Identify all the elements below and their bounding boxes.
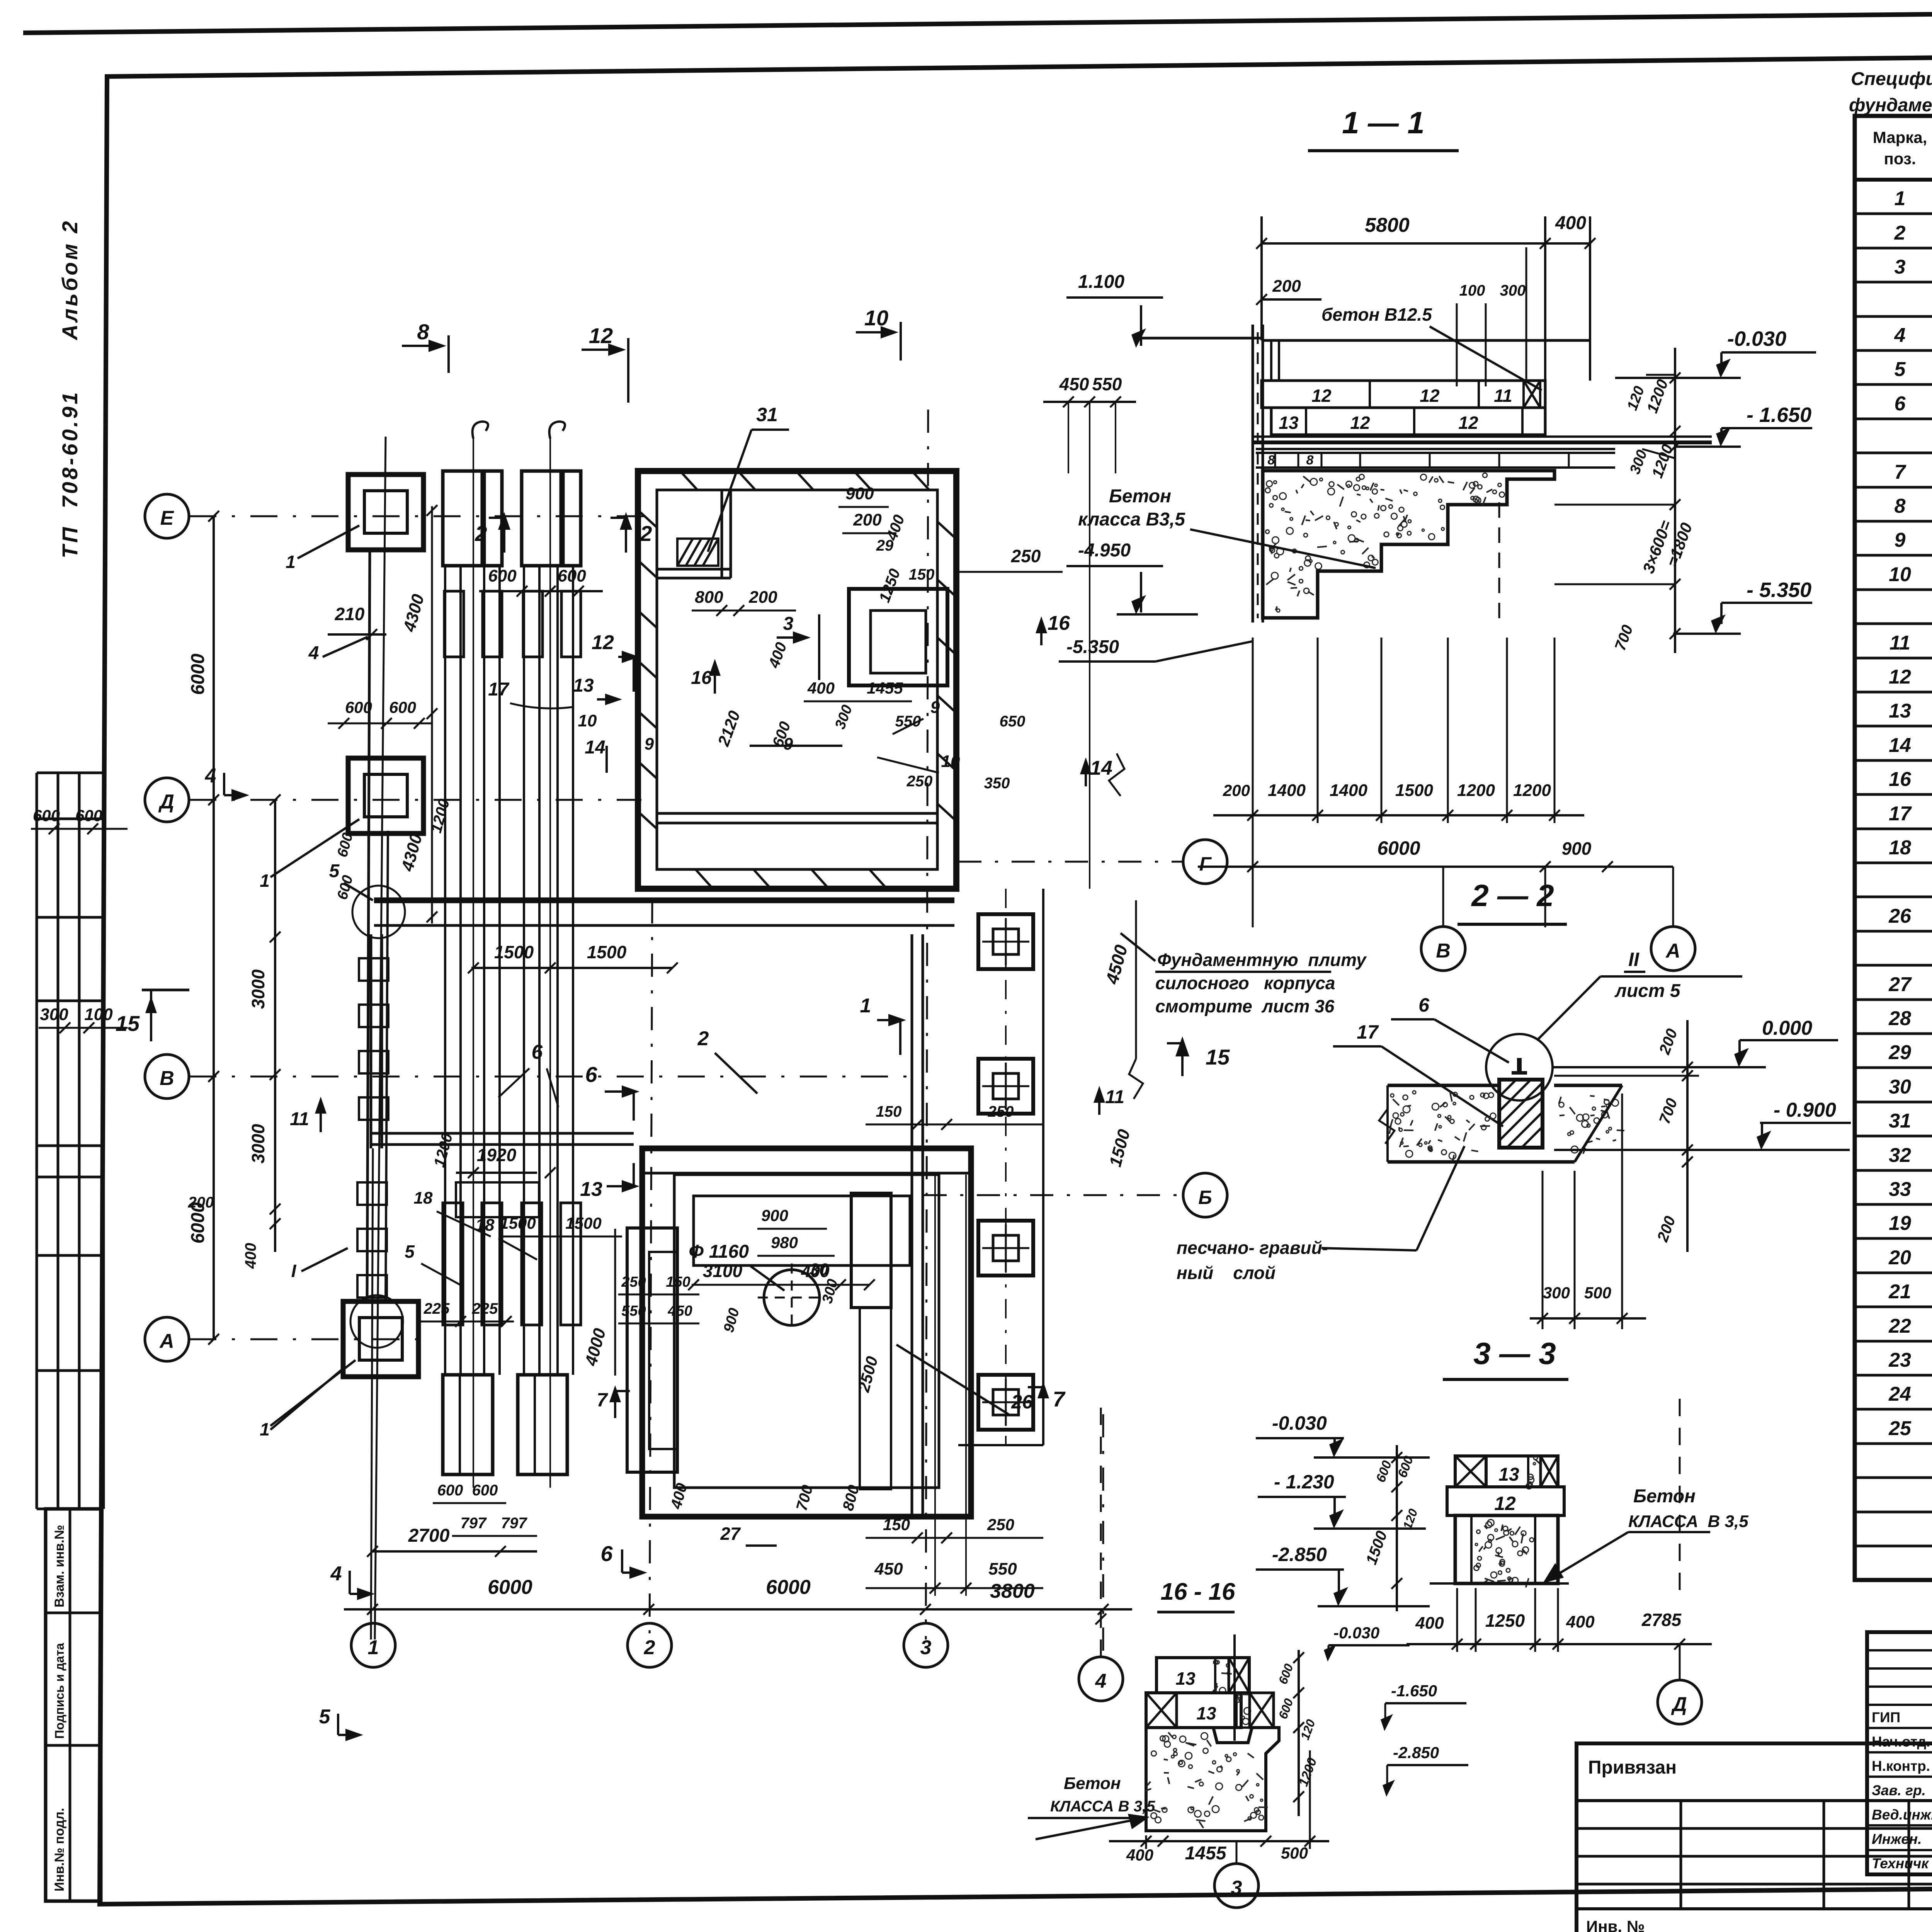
svg-text:13: 13 [580,1178,602,1201]
svg-text:Марка,: Марка, [1873,128,1927,146]
svg-text:250: 250 [906,773,933,790]
axis circle В (section 1-1) [1421,927,1465,971]
rail pier hatched [1499,1080,1543,1148]
svg-text:1: 1 [260,871,270,891]
svg-text:6: 6 [600,1541,613,1566]
svg-text:16: 16 [691,668,712,688]
svg-text:500: 500 [1584,1284,1611,1302]
svg-text:4: 4 [1095,1670,1107,1692]
column footing E/1 [348,474,423,550]
svg-text:3 — 3: 3 — 3 [1473,1336,1556,1371]
svg-text:2: 2 [639,521,652,546]
upper block right inner room [849,589,947,685]
svg-text:150: 150 [883,1515,910,1534]
svg-text:14: 14 [1090,757,1112,779]
svg-text:2785: 2785 [1641,1610,1682,1630]
svg-text:32: 32 [1889,1144,1911,1167]
axis grid horizontals Е Д В А [189,515,657,517]
svg-text:600: 600 [389,698,416,716]
foundation slab thin row [1256,448,1615,450]
svg-text:12: 12 [1494,1493,1516,1514]
svg-text:797: 797 [461,1515,487,1532]
section 2-2 slab [1388,1084,1499,1087]
svg-text:900: 900 [1562,838,1592,859]
floor line left of wall [1142,337,1262,340]
bottom dim line 6000 6000 3800 [344,1608,1132,1611]
svg-text:- 1.650: - 1.650 [1747,403,1811,427]
svg-text:1 — 1: 1 — 1 [1342,105,1424,140]
dim 600 600 (rails top) [479,590,603,592]
axis grid verticals 1..4 [375,437,386,1639]
svg-text:Фундаментную плиту: Фундаментную плиту [1157,950,1367,970]
dim 200 [1262,298,1321,301]
svg-text:225: 225 [472,1300,498,1317]
svg-text:900: 900 [761,1206,788,1225]
svg-text:6: 6 [1418,994,1430,1016]
svg-text:450: 450 [1059,374,1089,394]
svg-text:300: 300 [1500,282,1526,299]
svg-text:9: 9 [645,735,654,753]
svg-text:1400: 1400 [1268,781,1306,800]
diagonal cut line [1575,1085,1622,1162]
svg-text:Г: Г [1199,853,1212,875]
svg-text:1500: 1500 [587,942,627,962]
axis 3 circle (16-16) [1214,1864,1259,1908]
svg-text:3: 3 [1231,1877,1242,1899]
svg-text:100: 100 [84,1005,113,1024]
arrow 15 (left of 2-2) [1181,1043,1184,1076]
svg-text:6000: 6000 [1377,837,1420,859]
svg-text:24: 24 [1888,1383,1911,1405]
svg-text:21: 21 [1888,1281,1911,1303]
svg-text:31: 31 [756,404,778,425]
axis circle А (section 1-1) [1651,927,1695,971]
svg-text:7: 7 [1895,461,1906,483]
svg-text:350: 350 [984,775,1010,792]
masonry tick marks on upper block walls [680,471,697,490]
lower-right room [642,1148,971,1517]
svg-text:Вед.инж.: Вед.инж. [1872,1807,1932,1823]
upper block outer wall [638,471,956,889]
svg-text:1: 1 [368,1636,379,1659]
svg-text:2: 2 [474,521,487,546]
svg-text:16 - 16: 16 - 16 [1160,1578,1235,1605]
svg-text:12: 12 [1458,413,1478,433]
svg-text:17: 17 [488,679,510,700]
svg-text:1: 1 [286,552,296,572]
svg-text:-4.950: -4.950 [1078,540,1131,561]
svg-text:2: 2 [644,1636,655,1659]
left wall of section 1-1 [1252,325,1254,622]
circle 1160 [764,1270,820,1325]
zigzag break line right [1129,1059,1143,1099]
svg-text:класса В3,5: класса В3,5 [1078,509,1185,530]
svg-text:200: 200 [1272,277,1301,296]
svg-text:1455: 1455 [867,679,903,697]
svg-text:225: 225 [423,1300,450,1317]
svg-text:17: 17 [1357,1021,1379,1043]
spec table grid [1855,116,1932,1580]
svg-text:1455: 1455 [1185,1843,1227,1864]
svg-text:1: 1 [1895,187,1906,210]
svg-text:8: 8 [1306,453,1314,468]
svg-text:Φ 1160: Φ 1160 [689,1242,749,1262]
svg-text:500: 500 [1281,1844,1308,1862]
svg-text:400: 400 [1555,213,1586,233]
svg-text:10: 10 [578,711,597,730]
svg-text:1400: 1400 [1330,781,1367,800]
svg-text:30: 30 [810,1260,829,1279]
svg-text:20: 20 [1888,1247,1911,1269]
svg-text:2: 2 [1894,222,1906,244]
svg-text:12: 12 [1889,666,1911,688]
concrete mass stepped [1263,471,1554,618]
wall along axis 1 [367,550,370,1301]
svg-text:1500: 1500 [1395,781,1433,800]
svg-text:400: 400 [807,679,835,697]
3-3 bottom dims 400 1250 400 2785 [1406,1643,1712,1645]
right column footings x4 [978,914,1033,969]
svg-text:3: 3 [920,1636,932,1659]
svg-text:1500: 1500 [565,1214,601,1232]
pit left of room [627,1228,677,1472]
svg-text:9: 9 [784,735,793,753]
3-3 left vertical dims [1396,1445,1398,1611]
svg-text:11: 11 [1889,632,1910,654]
masonry course row 1 (blocks 12 12 11) [1262,381,1545,408]
svg-text:В: В [160,1067,174,1090]
svg-text:11: 11 [1494,386,1512,406]
svg-text:3000: 3000 [248,969,268,1009]
svg-text:Взам. инв.№: Взам. инв.№ [52,1525,67,1607]
svg-text:1200: 1200 [1513,781,1551,800]
upper block lower inner walls [657,812,937,815]
svg-text:200: 200 [1223,781,1250,799]
svg-text:27: 27 [1888,973,1912,996]
svg-text:550: 550 [621,1303,646,1319]
3-3 row 12 [1447,1487,1564,1515]
svg-text:ный слой: ный слой [1177,1263,1276,1283]
svg-text:10: 10 [941,752,960,771]
svg-text:18: 18 [1889,837,1911,859]
svg-text:25: 25 [1888,1417,1912,1440]
svg-text:450: 450 [874,1560,903,1578]
svg-text:300: 300 [1543,1284,1570,1302]
svg-text:10: 10 [864,306,888,330]
svg-text:поз.: поз. [1884,150,1916,168]
svg-text:29: 29 [1888,1041,1911,1064]
svg-text:Техничк: Техничк [1872,1855,1929,1871]
svg-text:Инв.№ подл.: Инв.№ подл. [52,1808,67,1891]
svg-text:1500: 1500 [500,1214,536,1232]
column footing A/1 [343,1301,418,1377]
lower-left hall [370,934,372,1148]
svg-text:4: 4 [308,643,319,663]
inner details lower room [694,1196,910,1265]
16-16 masonry row 2 [1146,1693,1241,1728]
svg-text:-0.030: -0.030 [1727,327,1786,350]
svg-text:КЛАССА В 3,5: КЛАССА В 3,5 [1628,1512,1748,1531]
svg-text:- 1.230: - 1.230 [1274,1471,1334,1493]
svg-text:Бетон: Бетон [1064,1774,1121,1793]
left dim chain inner 3000/3000/400 [274,800,276,1252]
svg-text:3100: 3100 [703,1261,743,1281]
svg-text:6: 6 [1895,393,1906,415]
dims 1500 1500 (hall top) [471,967,672,969]
svg-text:16: 16 [1889,768,1912,791]
svg-text:11: 11 [1105,1087,1124,1107]
svg-text:4: 4 [1894,324,1906,347]
svg-text:650: 650 [1000,713,1026,730]
section 1-1 axis dims 6000/900 [1198,866,1673,868]
svg-text:1250: 1250 [1485,1611,1525,1631]
svg-text:6: 6 [532,1041,543,1063]
axis Г circle [1183,840,1227,884]
svg-text:4: 4 [205,765,216,787]
3-3 concrete pier [1455,1515,1558,1583]
ground speckles 2-2 [1438,1114,1441,1117]
svg-text:300: 300 [40,1005,68,1024]
svg-text:550: 550 [988,1560,1017,1578]
svg-text:797: 797 [501,1515,527,1532]
svg-text:12: 12 [1350,413,1370,433]
svg-text:600: 600 [488,566,517,585]
svg-text:1920: 1920 [477,1145,517,1165]
leader 1 bottom footing [270,1368,344,1430]
svg-text:12: 12 [592,631,614,654]
svg-text:550: 550 [895,713,921,730]
svg-text:песчано- гравий-: песчано- гравий- [1177,1238,1328,1258]
svg-text:10: 10 [1889,563,1911,586]
svg-text:В: В [1436,940,1451,962]
svg-text:2: 2 [697,1027,709,1050]
svg-text:5: 5 [319,1706,331,1728]
svg-text:3: 3 [783,614,794,634]
left margin table lower (Взам.инв.№ / Подпись и дата / Инв.№ подл.) [46,1509,101,1901]
svg-text:- 5.350: - 5.350 [1747,578,1811,602]
svg-text:400: 400 [242,1243,259,1269]
svg-text:1: 1 [860,995,871,1017]
dashed axis inside concrete [1498,502,1500,618]
svg-text:100: 100 [1459,282,1485,299]
svg-text:2 — 2: 2 — 2 [1471,878,1554,913]
svg-text:3800: 3800 [990,1580,1035,1602]
svg-text:30: 30 [1889,1076,1911,1098]
column footing D/1 [348,758,423,833]
svg-text:980: 980 [771,1233,798,1252]
leader 1 to footing E/1 [298,526,359,558]
svg-text:15: 15 [116,1011,140,1036]
right side boundary of footings area [1042,889,1044,1445]
svg-text:550: 550 [1092,374,1122,394]
svg-text:5: 5 [1895,358,1906,381]
svg-text:2700: 2700 [408,1526,450,1546]
svg-text:200: 200 [748,588,777,607]
svg-text:8: 8 [1268,453,1275,468]
svg-text:ТП 708-60.91 Альбом 2: ТП 708-60.91 Альбом 2 [58,219,82,558]
svg-text:13: 13 [1196,1703,1216,1723]
axis Д circle (bottom right) [1658,1680,1702,1724]
svg-text:13: 13 [573,675,594,696]
svg-text:14: 14 [1889,734,1911,757]
foundation plates on axis-1 wall [359,958,388,981]
title block: signature table [1867,1632,1932,1874]
svg-text:11: 11 [290,1109,309,1129]
svg-text:450: 450 [667,1303,692,1319]
svg-text:200: 200 [853,510,882,529]
svg-text:Н.контр.: Н.контр. [1872,1758,1930,1774]
svg-text:6000: 6000 [188,653,208,695]
svg-text:8: 8 [417,320,429,344]
svg-text:Б: Б [1198,1187,1212,1208]
svg-text:250: 250 [1011,546,1041,566]
svg-text:-1.650: -1.650 [1391,1682,1437,1700]
svg-text:Инв. №: Инв. № [1586,1917,1645,1932]
svg-text:бетон В12.5: бетон В12.5 [1321,304,1432,325]
axis 4 circle (bottom) [1079,1657,1123,1701]
svg-text:-2.850: -2.850 [1393,1743,1439,1762]
break zigzag left [1379,1109,1395,1144]
svg-text:600: 600 [345,698,372,716]
svg-text:1500: 1500 [494,942,534,962]
svg-text:15: 15 [1206,1045,1230,1069]
svg-text:-2.850: -2.850 [1272,1544,1327,1565]
section 1-1 top dimension 5800/400 [1262,242,1590,245]
svg-text:9: 9 [1895,529,1906,551]
svg-text:Д: Д [1671,1693,1687,1716]
svg-text:-0.030: -0.030 [1333,1624,1379,1642]
svg-text:28: 28 [1888,1007,1911,1030]
svg-text:-0.030: -0.030 [1272,1412,1327,1434]
svg-text:7: 7 [597,1389,608,1411]
3-3 masonry row 13 [1455,1456,1558,1487]
svg-text:А: А [159,1330,174,1352]
svg-text:Инжен.: Инжен. [1872,1831,1922,1847]
masonry course row 2 (blocks 13 12 12) [1271,408,1545,435]
svg-text:Д: Д [158,791,174,813]
svg-text:Е: Е [160,507,174,529]
svg-text:600: 600 [558,566,586,585]
svg-text:31: 31 [1889,1110,1911,1132]
vertical duct 2500 [851,1193,891,1308]
section mark 2-2 arrows [503,518,505,553]
svg-text:13: 13 [1175,1668,1196,1689]
svg-text:250: 250 [621,1274,646,1290]
svg-text:26: 26 [1888,905,1912,927]
svg-text:33: 33 [1889,1178,1911,1201]
rail bundle group 1 [444,566,446,1375]
svg-text:150: 150 [876,1103,902,1120]
svg-text:1.100: 1.100 [1078,272,1124,292]
rail axes dashed + hooks [473,437,474,1488]
svg-text:- 0.900: - 0.900 [1774,1099,1836,1121]
svg-text:силосного корпуса: силосного корпуса [1155,973,1335,993]
right dim chain vertical [1674,348,1676,653]
svg-text:Зав. гр.: Зав. гр. [1872,1782,1926,1798]
svg-text:13: 13 [1279,413,1299,433]
svg-text:400: 400 [1566,1612,1595,1631]
room top band (slab 2) [642,1172,971,1175]
svg-text:400: 400 [1126,1846,1153,1864]
svg-text:6: 6 [585,1062,597,1087]
svg-text:150: 150 [909,566,935,583]
svg-text:600: 600 [75,806,102,825]
svg-text:9: 9 [930,698,940,717]
circles crossing axis1 wall [352,886,405,938]
svg-text:3000: 3000 [248,1124,268,1163]
svg-text:6000: 6000 [488,1576,532,1599]
left margin table upper [36,773,38,1509]
svg-text:27: 27 [720,1524,741,1544]
svg-text:29: 29 [876,537,894,554]
svg-text:5: 5 [329,861,340,881]
2-2 right dim chain 200/700/200 [1686,1020,1689,1252]
svg-text:12: 12 [1311,386,1332,406]
svg-text:смотрите лист 36: смотрите лист 36 [1155,996,1335,1016]
svg-text:8: 8 [1895,495,1906,517]
svg-text:4: 4 [330,1563,342,1585]
middle band wall [374,898,954,903]
svg-text:ГИП: ГИП [1872,1709,1900,1725]
svg-text:17: 17 [1889,803,1912,825]
svg-text:Бетон: Бетон [1633,1486,1696,1507]
16-16 bottom dims 400 1455 500 [1109,1840,1329,1842]
paper top edge [23,6,1932,33]
svg-text:18: 18 [414,1189,433,1207]
svg-text:600: 600 [472,1482,498,1499]
section 1-1 bottom dims [1213,814,1584,816]
svg-text:I: I [291,1261,297,1281]
svg-text:лист 5: лист 5 [1614,981,1681,1001]
axis circle Е [145,494,189,538]
hatched pit 31 [677,539,718,566]
svg-text:1: 1 [260,1419,270,1439]
svg-text:7: 7 [1053,1387,1066,1411]
svg-text:23: 23 [1888,1349,1911,1371]
upper block inner top-left room [657,568,731,571]
svg-text:13: 13 [1498,1464,1519,1485]
left dim chain outer 6000/6000 [213,516,215,1339]
svg-text:13: 13 [1889,700,1911,722]
rail beam line [1252,435,1712,438]
svg-text:0.000: 0.000 [1762,1017,1812,1039]
svg-text:12: 12 [1420,386,1440,406]
axis Б circle [1183,1173,1227,1217]
svg-text:14: 14 [585,737,605,758]
svg-text:II: II [1628,949,1639,970]
svg-text:150: 150 [666,1274,690,1290]
16-16 masonry row 1 [1156,1658,1249,1693]
svg-text:600: 600 [437,1482,463,1499]
axis circle Д [145,778,189,822]
svg-text:22: 22 [1888,1315,1911,1337]
svg-text:200: 200 [188,1194,214,1211]
svg-text:19: 19 [1889,1212,1911,1235]
top slab outline [1262,339,1590,342]
svg-text:16: 16 [1048,612,1070,634]
2-2 bottom dims 300 500 [1530,1317,1646,1320]
svg-text:5: 5 [405,1242,415,1262]
svg-text:900: 900 [845,484,874,503]
rail circle detail [1486,1034,1553,1100]
svg-text:А: А [1665,940,1680,962]
svg-text:1200: 1200 [1457,781,1495,800]
privyazan box [1577,1743,1932,1932]
svg-text:400: 400 [1415,1614,1444,1633]
16-16 right dim chain [1298,1650,1300,1816]
svg-text:-5.350: -5.350 [1066,637,1119,657]
svg-text:210: 210 [335,604,365,624]
